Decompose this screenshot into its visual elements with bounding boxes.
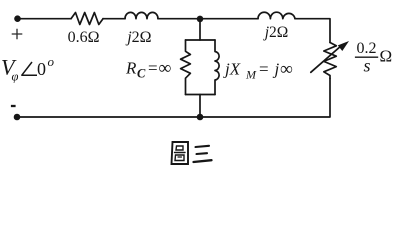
svg-text:j2Ω: j2Ω (125, 29, 151, 46)
svg-text:φ: φ (12, 70, 19, 84)
svg-text:j: j (273, 60, 280, 79)
svg-text:o: o (48, 54, 55, 69)
svg-text:=: = (259, 60, 269, 79)
svg-text:0: 0 (37, 59, 46, 79)
svg-text:M: M (245, 68, 257, 82)
svg-text:∞: ∞ (280, 59, 293, 79)
svg-text:C: C (137, 67, 146, 81)
svg-text:jX: jX (223, 60, 241, 79)
svg-text:0.2: 0.2 (357, 40, 377, 57)
svg-text:R: R (125, 59, 137, 78)
svg-text:=: = (148, 59, 158, 78)
svg-text:∞: ∞ (159, 58, 172, 78)
svg-text:s: s (363, 56, 370, 76)
svg-text:0.6Ω: 0.6Ω (68, 29, 100, 46)
svg-text:Ω: Ω (380, 47, 393, 66)
svg-text:j2Ω: j2Ω (263, 24, 289, 41)
